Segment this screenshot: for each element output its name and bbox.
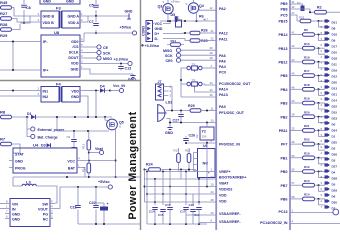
wire bbox=[167, 110, 191, 112]
svg-text:D14: D14 bbox=[332, 98, 338, 102]
microcontroller U1 bbox=[216, 0, 290, 230]
resistor R27 bbox=[1, 17, 12, 21]
capacitor C14 bbox=[152, 208, 158, 210]
svg-text:D4: D4 bbox=[100, 85, 105, 89]
svg-text:C22: C22 bbox=[89, 201, 96, 205]
svg-text:PB14: PB14 bbox=[279, 33, 288, 37]
wire bbox=[56, 117, 58, 131]
svg-text:D16: D16 bbox=[332, 32, 338, 36]
svg-text:VSSA/VREF-: VSSA/VREF- bbox=[219, 212, 241, 216]
wire bbox=[206, 143, 208, 187]
svg-text:VCC: VCC bbox=[155, 22, 163, 26]
transistor Q4 bbox=[186, 2, 204, 13]
svg-text:30: 30 bbox=[210, 46, 214, 50]
svg-text:PA11: PA11 bbox=[219, 38, 228, 42]
wire bbox=[88, 173, 90, 177]
svg-text:29: 29 bbox=[292, 99, 296, 103]
svg-text:55: 55 bbox=[292, 154, 296, 158]
wire bbox=[105, 117, 108, 121]
wire bbox=[13, 176, 140, 178]
wire bbox=[0, 90, 37, 92]
svg-text:D8: D8 bbox=[332, 26, 336, 30]
svg-text:R16: R16 bbox=[82, 166, 86, 172]
resistor R45 bbox=[1, 6, 12, 10]
svg-text:PA4: PA4 bbox=[219, 65, 226, 69]
svg-text:IP+: IP+ bbox=[43, 69, 49, 73]
svg-text:VREF+: VREF+ bbox=[219, 170, 231, 174]
svg-text:GND: GND bbox=[71, 67, 79, 71]
speaker LS3 bbox=[158, 101, 172, 122]
wire bbox=[81, 160, 116, 162]
wire bbox=[146, 172, 148, 225]
svg-text:S: S bbox=[119, 125, 121, 129]
resistor R14 bbox=[290, 193, 325, 205]
svg-text:41: 41 bbox=[292, 31, 296, 35]
resistor R7 bbox=[1, 142, 12, 146]
wire bbox=[167, 0, 169, 4]
svg-text:R16: R16 bbox=[304, 56, 310, 60]
svg-text:Power Management: Power Management bbox=[127, 111, 139, 219]
svg-text:D9: D9 bbox=[332, 38, 336, 42]
junction bbox=[95, 32, 97, 34]
capacitor C26 bbox=[185, 136, 187, 138]
wire bbox=[185, 218, 187, 224]
svg-text:D28: D28 bbox=[332, 176, 338, 180]
isolator F3 bbox=[37, 5, 84, 28]
svg-text:LS3: LS3 bbox=[166, 101, 173, 105]
svg-text:28: 28 bbox=[210, 56, 214, 60]
svg-text:GND: GND bbox=[155, 27, 163, 31]
svg-text:R26: R26 bbox=[201, 29, 208, 33]
svg-text:C17: C17 bbox=[180, 210, 186, 214]
svg-text:C26: C26 bbox=[189, 134, 196, 138]
svg-text:26: 26 bbox=[292, 140, 296, 144]
svg-text:Vcc_IN: Vcc_IN bbox=[113, 84, 125, 88]
svg-text:CE0: CE0 bbox=[166, 59, 173, 63]
port +3.3Viso bbox=[84, 63, 128, 65]
svg-text:Bat_Charge: Bat_Charge bbox=[38, 135, 58, 139]
capacitor C15 bbox=[160, 210, 166, 212]
svg-text:DOUT: DOUT bbox=[68, 56, 79, 60]
wire bbox=[36, 116, 113, 118]
wire bbox=[154, 179, 156, 205]
svg-text:PA14: PA14 bbox=[219, 88, 228, 92]
transistor Q5 bbox=[107, 119, 124, 130]
wire bbox=[180, 170, 182, 180]
wire bbox=[12, 19, 38, 23]
svg-text:Y1: Y1 bbox=[192, 62, 196, 66]
svg-text:19: 19 bbox=[211, 183, 215, 187]
wire bbox=[196, 13, 198, 21]
wire bbox=[57, 130, 109, 132]
wire bbox=[178, 148, 180, 154]
wire bbox=[12, 116, 30, 118]
wire bbox=[55, 187, 108, 209]
svg-text:PB0: PB0 bbox=[281, 170, 288, 174]
capacitor C17 bbox=[183, 208, 189, 210]
svg-text:GND: GND bbox=[12, 218, 20, 222]
svg-text:VBAT: VBAT bbox=[219, 182, 229, 186]
wire bbox=[188, 163, 190, 172]
svg-text:GND: GND bbox=[125, 10, 133, 14]
wire bbox=[181, 96, 216, 98]
svg-text:R25: R25 bbox=[201, 39, 208, 43]
svg-text:C18: C18 bbox=[189, 203, 195, 207]
port Bat_Charge bbox=[27, 129, 31, 137]
svg-text:SCK: SCK bbox=[165, 54, 173, 58]
resistor R28 bbox=[1, 28, 12, 32]
svg-text:D13: D13 bbox=[332, 86, 338, 90]
svg-text:PF0/OSC_IN: PF0/OSC_IN bbox=[219, 143, 240, 147]
wire bbox=[199, 9, 216, 11]
svg-text:GND: GND bbox=[66, 0, 74, 4]
wire bbox=[145, 178, 217, 180]
svg-text:CE: CE bbox=[103, 46, 109, 50]
connector J1 (cut at top) bbox=[40, 0, 80, 4]
port +3.3Viso bbox=[141, 44, 143, 46]
wire bbox=[167, 119, 217, 123]
svg-text:U4: U4 bbox=[33, 143, 39, 148]
svg-text:GND A: GND A bbox=[68, 15, 80, 19]
wire bbox=[205, 84, 216, 85]
svg-text:SCK: SCK bbox=[103, 51, 111, 55]
svg-text:PC0: PC0 bbox=[219, 71, 226, 75]
wire bbox=[193, 0, 195, 3]
wire bbox=[0, 41, 37, 43]
svg-text:VDD: VDD bbox=[71, 62, 79, 66]
wire bbox=[147, 223, 207, 225]
svg-text:Q3: Q3 bbox=[158, 5, 163, 9]
svg-text:C27: C27 bbox=[173, 119, 180, 123]
svg-text:44: 44 bbox=[211, 175, 215, 179]
svg-text:D0: D0 bbox=[332, 122, 336, 126]
svg-text:F4: F4 bbox=[56, 82, 61, 87]
wire bbox=[188, 148, 190, 154]
wire bbox=[83, 33, 85, 42]
svg-text:PB8: PB8 bbox=[281, 8, 288, 12]
port OSC32 bbox=[333, 209, 339, 215]
crystal Y3 bbox=[185, 78, 205, 88]
wire bbox=[290, 212, 334, 214]
ground bbox=[84, 69, 133, 74]
wire bbox=[147, 193, 216, 195]
svg-text:PB9: PB9 bbox=[281, 2, 288, 6]
svg-text:22: 22 bbox=[211, 37, 215, 41]
capacitor C13 bbox=[120, 64, 122, 66]
svg-text:D25: D25 bbox=[332, 140, 338, 144]
svg-text:R24: R24 bbox=[146, 163, 153, 167]
svg-text:PB5: PB5 bbox=[281, 74, 288, 78]
svg-text:IN: IN bbox=[12, 208, 16, 212]
resistor R21 bbox=[290, 124, 325, 136]
svg-text:CON3: CON3 bbox=[142, 26, 146, 36]
diode D2 bbox=[290, 3, 296, 5]
wire bbox=[167, 14, 169, 21]
svg-text:IN2: IN2 bbox=[43, 95, 49, 99]
ferrite FB2 bbox=[176, 20, 182, 27]
port Vcc_IN bbox=[110, 90, 120, 92]
svg-text:D30: D30 bbox=[332, 200, 338, 204]
section divider vertical bbox=[140, 0, 142, 230]
svg-text:R2: R2 bbox=[317, 6, 322, 10]
svg-text:X2: X2 bbox=[195, 134, 199, 138]
svg-text:PB4: PB4 bbox=[281, 88, 288, 92]
svg-text:VDD B: VDD B bbox=[43, 21, 55, 25]
wire bbox=[144, 170, 146, 203]
junction bbox=[95, 15, 97, 17]
svg-text:GND: GND bbox=[43, 0, 51, 4]
port CE bbox=[84, 46, 97, 48]
wire bbox=[198, 218, 200, 224]
svg-text:STAT: STAT bbox=[15, 152, 25, 156]
svg-text:D6: D6 bbox=[332, 194, 336, 198]
resistor R22 bbox=[290, 138, 325, 150]
wire bbox=[290, 223, 340, 225]
svg-text:C21: C21 bbox=[70, 206, 77, 210]
ground symbol bbox=[169, 123, 171, 128]
svg-text:GND: GND bbox=[12, 213, 20, 217]
wire bbox=[163, 21, 170, 24]
svg-text:R14: R14 bbox=[171, 39, 177, 43]
svg-text:VDD A: VDD A bbox=[68, 21, 79, 25]
resistor R26 bbox=[190, 31, 200, 34]
svg-text:43: 43 bbox=[292, 58, 296, 62]
svg-text:+3.3Viso: +3.3Viso bbox=[114, 57, 129, 61]
svg-text:PB11: PB11 bbox=[279, 129, 288, 133]
resistor R25 bbox=[190, 39, 200, 42]
svg-text:D3: D3 bbox=[332, 158, 336, 162]
svg-text:28: 28 bbox=[292, 113, 296, 117]
svg-text:10: 10 bbox=[211, 119, 215, 123]
svg-text:D3: D3 bbox=[41, 144, 46, 148]
wire bbox=[105, 90, 113, 92]
svg-text:PC14/OSC32_IN: PC14/OSC32_IN bbox=[260, 221, 288, 225]
svg-text:32: 32 bbox=[292, 5, 296, 9]
wire bbox=[84, 15, 129, 17]
resistor R16 bbox=[87, 163, 91, 173]
capacitor C18 bbox=[190, 210, 196, 212]
wire bbox=[12, 144, 21, 153]
svg-text:R17: R17 bbox=[304, 69, 310, 73]
svg-text:D17: D17 bbox=[332, 44, 338, 48]
svg-text:36: 36 bbox=[210, 93, 214, 97]
svg-text:58: 58 bbox=[292, 195, 296, 199]
svg-text:VSSA/VREF-: VSSA/VREF- bbox=[219, 220, 241, 224]
wire bbox=[88, 131, 90, 140]
svg-text:GND: GND bbox=[15, 159, 23, 163]
svg-text:12: 12 bbox=[210, 6, 214, 10]
resistor R19 bbox=[290, 97, 325, 109]
svg-text:R14: R14 bbox=[304, 193, 310, 197]
wire bbox=[185, 172, 187, 206]
resistor R6 bbox=[290, 28, 325, 40]
resistor R20 bbox=[290, 110, 325, 122]
wire bbox=[192, 194, 194, 205]
svg-text:+3.3Viso: +3.3Viso bbox=[145, 44, 160, 48]
wire bbox=[0, 208, 5, 210]
svg-text:Vbat: Vbat bbox=[95, 147, 104, 151]
wire bbox=[192, 218, 194, 224]
svg-text:PC5: PC5 bbox=[281, 14, 288, 18]
svg-text:BOOT0/AVREF+: BOOT0/AVREF+ bbox=[219, 176, 246, 180]
svg-text:VDDIO2: VDDIO2 bbox=[219, 188, 232, 192]
wire bbox=[147, 171, 216, 173]
wire bbox=[88, 150, 90, 163]
svg-text:D11: D11 bbox=[332, 62, 338, 66]
wire bbox=[36, 186, 57, 203]
svg-text:GND B: GND B bbox=[43, 15, 55, 19]
wire bbox=[12, 8, 38, 17]
wire bbox=[169, 170, 171, 206]
svg-text:PB15: PB15 bbox=[279, 20, 288, 24]
svg-text:VOUT: VOUT bbox=[38, 208, 49, 212]
wire bbox=[178, 163, 180, 172]
wire bbox=[84, 90, 100, 92]
svg-text:J7: J7 bbox=[158, 80, 162, 84]
transistor Q3 bbox=[158, 0, 174, 14]
svg-text:Y2: Y2 bbox=[202, 130, 206, 134]
svg-text:PF7: PF7 bbox=[281, 143, 288, 147]
svg-text:R28: R28 bbox=[0, 22, 8, 27]
resistor R13 bbox=[290, 179, 325, 191]
regulator U5 bbox=[5, 199, 55, 227]
section divider bbox=[0, 80, 140, 82]
svg-text:D1: D1 bbox=[27, 112, 32, 116]
svg-text:R29: R29 bbox=[0, 33, 8, 38]
capacitor C8 bbox=[23, 0, 25, 23]
capacitor C22 bbox=[95, 187, 97, 206]
resistor R14 bbox=[171, 43, 181, 47]
svg-text:D18: D18 bbox=[332, 56, 338, 60]
svg-text:PA2: PA2 bbox=[219, 7, 226, 11]
wire bbox=[145, 201, 217, 203]
svg-text:R13: R13 bbox=[304, 179, 310, 183]
wire bbox=[198, 179, 200, 205]
wire bbox=[290, 15, 297, 21]
svg-text:PC15/OSC32_OUT: PC15/OSC32_OUT bbox=[219, 82, 251, 86]
svg-text:PB1: PB1 bbox=[281, 156, 288, 160]
svg-text:R18: R18 bbox=[304, 83, 310, 87]
wire bbox=[20, 16, 30, 23]
svg-text:GND: GND bbox=[165, 131, 173, 135]
svg-text:25: 25 bbox=[292, 126, 296, 130]
svg-text:PB3: PB3 bbox=[281, 102, 288, 106]
svg-text:SW: SW bbox=[42, 203, 48, 207]
svg-text:VDD: VDD bbox=[219, 194, 227, 198]
svg-text:R6: R6 bbox=[304, 28, 308, 32]
svg-text:Y3: Y3 bbox=[192, 78, 196, 82]
wire bbox=[153, 23, 155, 25]
wire bbox=[162, 218, 164, 224]
svg-text:SCLK: SCLK bbox=[69, 51, 79, 55]
svg-text:D10: D10 bbox=[332, 50, 338, 54]
svg-text:NC: NC bbox=[43, 218, 49, 222]
wire bbox=[200, 32, 216, 34]
svg-text:R20: R20 bbox=[304, 110, 310, 114]
wire bbox=[169, 218, 171, 224]
svg-text:D19: D19 bbox=[332, 68, 338, 72]
svg-text:R19: R19 bbox=[304, 151, 310, 155]
connector J7 bbox=[156, 80, 173, 111]
wire bbox=[319, 21, 326, 27]
svg-text:C13: C13 bbox=[125, 67, 132, 71]
wire bbox=[163, 32, 190, 35]
svg-text:C5: C5 bbox=[89, 4, 94, 8]
svg-text:27: 27 bbox=[292, 11, 296, 15]
svg-text:R29: R29 bbox=[188, 104, 195, 108]
svg-text:24: 24 bbox=[211, 190, 215, 194]
svg-text:PF1/OSC_OUT: PF1/OSC_OUT bbox=[219, 111, 245, 115]
svg-text:IP-: IP- bbox=[43, 40, 48, 44]
svg-text:34: 34 bbox=[210, 81, 214, 85]
wire bbox=[181, 83, 185, 85]
svg-text:R19: R19 bbox=[304, 97, 310, 101]
svg-text:PROG: PROG bbox=[15, 166, 26, 170]
capacitor C27 bbox=[180, 111, 182, 114]
wire bbox=[199, 222, 216, 224]
svg-text:BAT: BAT bbox=[68, 166, 76, 170]
svg-text:C9: C9 bbox=[67, 135, 71, 139]
resistor R18 bbox=[290, 83, 325, 95]
svg-text:R7: R7 bbox=[0, 137, 6, 142]
svg-text:+5Viso: +5Viso bbox=[120, 25, 132, 29]
svg-text:MISO: MISO bbox=[163, 49, 172, 53]
svg-text:23: 23 bbox=[211, 211, 215, 215]
wire bbox=[201, 110, 216, 112]
connector J2 pins bbox=[321, 19, 338, 210]
crystal Y2 bbox=[200, 127, 214, 140]
svg-text:+: + bbox=[107, 202, 109, 206]
svg-text:46: 46 bbox=[292, 85, 296, 89]
crystal Y1 bbox=[185, 62, 205, 72]
resistor R16 bbox=[290, 56, 325, 68]
svg-text:29: 29 bbox=[210, 51, 214, 55]
svg-text:GD0: GD0 bbox=[71, 40, 78, 44]
wire bbox=[81, 168, 85, 178]
resistor R17 bbox=[290, 69, 325, 81]
wire bbox=[84, 16, 88, 22]
capacitor C7 bbox=[95, 16, 97, 33]
svg-text:+5Viso: +5Viso bbox=[171, 0, 180, 4]
svg-text:VDD: VDD bbox=[71, 90, 79, 94]
resistor R12 bbox=[290, 165, 325, 177]
resistor R18 bbox=[187, 154, 191, 163]
svg-text:PA0: PA0 bbox=[219, 105, 226, 109]
svg-text:D5: D5 bbox=[171, 13, 176, 17]
charger U4 bbox=[9, 143, 81, 174]
capacitor C21 bbox=[77, 187, 79, 205]
wire bbox=[186, 214, 216, 216]
capacitor C9 bbox=[73, 131, 75, 139]
svg-text:R22: R22 bbox=[304, 138, 310, 142]
svg-text:VCC: VCC bbox=[67, 159, 75, 163]
svg-text:PB13: PB13 bbox=[279, 47, 288, 51]
svg-text:D4: D4 bbox=[332, 170, 336, 174]
svg-text:D26: D26 bbox=[332, 152, 338, 156]
connector CON3 bbox=[142, 21, 153, 42]
wire bbox=[160, 20, 216, 22]
svg-text:32K: 32K bbox=[202, 135, 207, 139]
svg-text:PG: PG bbox=[43, 213, 48, 217]
port Vbat bbox=[89, 152, 100, 154]
svg-text:D29: D29 bbox=[332, 188, 338, 192]
svg-text:D12: D12 bbox=[332, 74, 338, 78]
svg-text:F2: F2 bbox=[176, 16, 180, 20]
svg-text:D1: D1 bbox=[332, 134, 336, 138]
wire bbox=[181, 68, 185, 97]
svg-text:21: 21 bbox=[211, 29, 215, 33]
svg-text:S: S bbox=[186, 2, 188, 6]
